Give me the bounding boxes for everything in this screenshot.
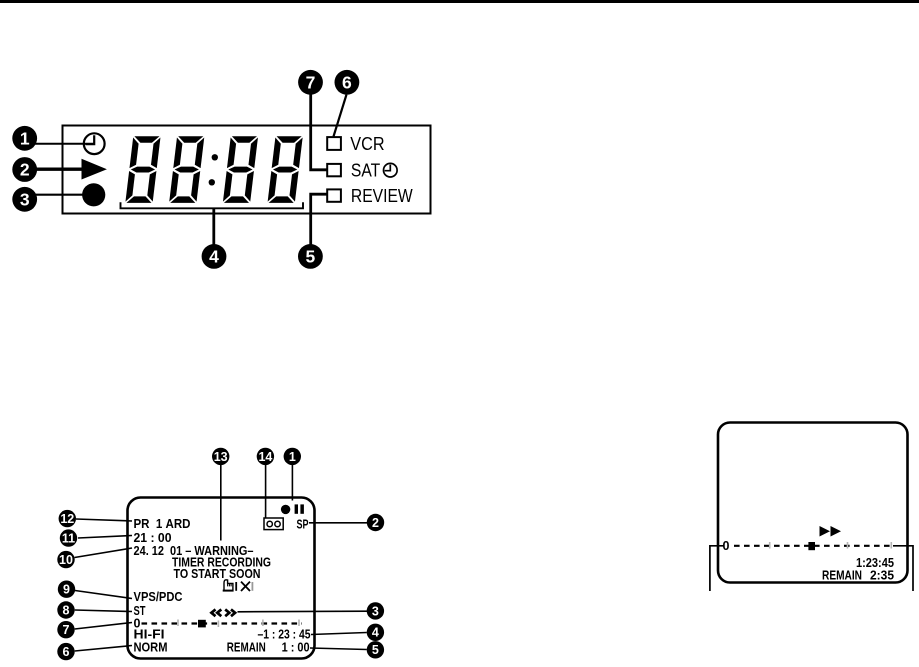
OSD leader line 5 xyxy=(310,648,367,650)
svg-text:3: 3 xyxy=(20,190,30,210)
svg-text:13: 13 xyxy=(214,450,228,464)
svg-text:SAT: SAT xyxy=(351,160,380,181)
OSD leader line 2 xyxy=(309,522,367,524)
digits bracket xyxy=(121,202,304,208)
record dot OSD xyxy=(281,505,290,514)
svg-text:SP: SP xyxy=(297,518,309,532)
svg-text:VCR: VCR xyxy=(350,133,384,154)
svg-text:11: 11 xyxy=(62,532,75,546)
tape screen ticks xyxy=(770,542,892,549)
OSD leader line 12 xyxy=(76,519,132,521)
leader line 4 xyxy=(212,208,215,245)
callout 3 xyxy=(12,187,37,212)
callout 1 xyxy=(12,126,37,151)
svg-text:10: 10 xyxy=(59,553,73,567)
svg-text:14: 14 xyxy=(258,450,272,464)
rewind chevrons xyxy=(211,609,221,616)
svg-text:8: 8 xyxy=(63,603,70,617)
OSD tape ticks xyxy=(178,620,299,628)
OSD leader line 14 xyxy=(265,464,267,518)
hand icon xyxy=(223,580,234,591)
svg-text:6: 6 xyxy=(63,645,70,659)
callout 7 xyxy=(298,70,323,95)
callout 8 xyxy=(57,601,74,618)
svg-text:PR 1 ARD: PR 1 ARD xyxy=(134,517,191,531)
timer clock icon xyxy=(84,133,105,154)
OSD leader line 9 xyxy=(75,591,132,599)
seven-segment digit 1 xyxy=(125,136,160,203)
svg-text:4: 4 xyxy=(209,247,219,267)
svg-text:HI-FI: HI-FI xyxy=(134,628,165,642)
seven-segment digit 3 xyxy=(223,136,258,203)
OSD leader line 4 xyxy=(311,633,367,635)
svg-text:REMAIN: REMAIN xyxy=(822,569,862,583)
record icon xyxy=(82,183,105,206)
callout 5 xyxy=(298,244,323,269)
OSD leader line 6 xyxy=(75,646,132,652)
tape screen right bracket xyxy=(893,546,913,591)
svg-text:9: 9 xyxy=(63,583,70,597)
leader line 6 xyxy=(334,95,347,137)
tape screen outline xyxy=(718,423,908,583)
tape screen left bracket xyxy=(710,546,724,591)
svg-text:6: 6 xyxy=(342,73,352,93)
callout 6b xyxy=(57,643,74,660)
callout 10 xyxy=(57,551,74,568)
svg-text:7: 7 xyxy=(306,73,316,93)
fast forward icon xyxy=(820,526,831,537)
OSD leader line 8 xyxy=(75,610,132,612)
svg-text:4: 4 xyxy=(372,626,379,640)
leader line 3 xyxy=(34,194,93,196)
tape screen dashed bar xyxy=(734,545,893,547)
callout 2b xyxy=(367,514,384,531)
callout 11 xyxy=(60,529,77,546)
leader line 5 xyxy=(311,194,328,245)
SAT clock icon xyxy=(384,163,398,177)
leader line 1 xyxy=(33,143,94,145)
callout 14 xyxy=(257,448,274,465)
callout 1b xyxy=(284,448,301,465)
bar-X-bar icon xyxy=(236,582,252,591)
leader line 2 xyxy=(34,167,96,170)
colon dots xyxy=(212,154,218,160)
OSD screen outline xyxy=(128,498,315,659)
svg-text:2:35: 2:35 xyxy=(870,569,894,583)
VCR checkbox xyxy=(327,137,341,150)
callout 5b xyxy=(367,641,384,658)
callout 2 xyxy=(12,157,37,182)
callout 4 xyxy=(202,244,227,269)
OSD tape marker square xyxy=(198,620,206,628)
svg-text:2: 2 xyxy=(20,160,30,180)
forward chevrons xyxy=(225,609,235,616)
svg-text:0: 0 xyxy=(723,539,730,553)
REVIEW checkbox xyxy=(327,189,341,201)
OSD leader line 10 xyxy=(75,548,133,558)
play icon xyxy=(82,159,107,180)
svg-text:1: 1 xyxy=(20,129,30,149)
svg-text:3: 3 xyxy=(372,604,379,618)
svg-text:REMAIN: REMAIN xyxy=(227,641,266,655)
svg-text:12: 12 xyxy=(60,512,74,526)
callout 13 xyxy=(212,448,229,465)
callout 9 xyxy=(58,581,75,598)
svg-text:TO START SOON: TO START SOON xyxy=(174,567,261,581)
svg-text:21 : 00: 21 : 00 xyxy=(134,531,172,545)
cassette icon xyxy=(264,518,283,530)
OSD leader line 13 xyxy=(220,464,222,541)
OSD leader line 1 xyxy=(291,464,293,501)
svg-text:NORM: NORM xyxy=(134,641,168,655)
svg-text:5: 5 xyxy=(372,643,379,657)
leader line 7 xyxy=(311,94,328,170)
svg-text:1: 1 xyxy=(289,450,296,464)
display panel outline xyxy=(63,126,431,214)
svg-text:REVIEW: REVIEW xyxy=(351,185,413,206)
svg-text:VPS/PDC: VPS/PDC xyxy=(134,590,183,604)
OSD leader line 7 xyxy=(75,623,132,630)
seven-segment digit 4 xyxy=(267,136,302,203)
svg-text:1 : 00: 1 : 00 xyxy=(282,641,310,655)
callout 3b xyxy=(367,602,384,619)
page top black bar xyxy=(0,0,919,3)
seven-segment digit 2 xyxy=(169,136,204,203)
OSD tape position dashed bar xyxy=(142,622,303,624)
callout 7b xyxy=(57,621,74,638)
tape screen marker square xyxy=(808,542,815,550)
SAT checkbox xyxy=(327,164,341,176)
pause bars OSD xyxy=(295,504,298,513)
svg-text:7: 7 xyxy=(63,623,70,637)
callout 6 xyxy=(335,70,360,95)
svg-text:5: 5 xyxy=(306,247,316,267)
callout 4b xyxy=(367,624,384,641)
svg-text:2: 2 xyxy=(372,516,379,530)
OSD leader line 11 xyxy=(78,536,132,539)
callout 12 xyxy=(59,510,76,527)
svg-text:–1 : 23 : 45: –1 : 23 : 45 xyxy=(258,628,311,642)
OSD leader line 3 xyxy=(238,610,368,613)
